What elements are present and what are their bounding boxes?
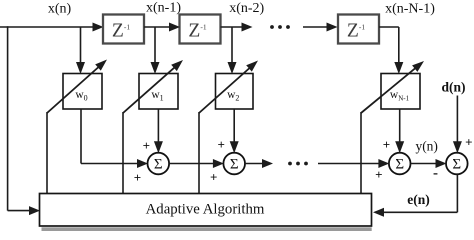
adjustment arrow through w1 (from adaptive algorithm) bbox=[123, 60, 183, 194]
delay block Z2 (Z^-1) bbox=[180, 15, 221, 44]
wire: tap x(n) down to w0 bbox=[76, 27, 85, 74]
label + (S4 plus input) bbox=[465, 134, 472, 149]
svg-text:Σ: Σ bbox=[154, 157, 163, 173]
label + (S1 left input) bbox=[134, 170, 141, 185]
svg-text:Adaptive Algorithm: Adaptive Algorithm bbox=[146, 202, 265, 218]
wire: into summer S3 bbox=[318, 159, 389, 168]
ellipsis: bottom row dots bbox=[288, 162, 308, 166]
summer S1 (sigma) bbox=[148, 153, 170, 175]
label + (S2 top input) bbox=[217, 137, 224, 152]
wire: summer S1 to summer S2 bbox=[169, 159, 224, 168]
svg-text:+: + bbox=[143, 138, 150, 153]
node: input branch vertical wire to adaptive algorithm bbox=[7, 26, 9, 210]
delay block Z3 (Z^-1) bbox=[338, 15, 379, 44]
summer S2 (sigma) bbox=[223, 153, 245, 175]
weight multiplier w1 bbox=[139, 74, 178, 110]
block: Adaptive Algorithm (with shadow) bbox=[40, 194, 372, 232]
wire: input x(n) horizontal line bbox=[0, 23, 104, 32]
svg-text:+: + bbox=[210, 170, 217, 185]
summer S3 (sigma) bbox=[389, 153, 411, 175]
svg-text:-: - bbox=[433, 166, 438, 182]
delay block Z1 (Z^-1) bbox=[103, 15, 144, 44]
wire: Z3 output to tap x(n-N-1) bbox=[379, 27, 403, 74]
wire: wN-1 output down to summer S3 bbox=[395, 109, 404, 153]
label y(n) bbox=[415, 138, 438, 153]
adjustment arrow through w2 (from adaptive algorithm) bbox=[199, 61, 258, 194]
summer S4 (sigma) bbox=[446, 153, 468, 175]
wire: Z1 output to Z2 bbox=[144, 23, 180, 32]
wire: Z2 output segment bbox=[221, 23, 253, 32]
svg-text:y(n): y(n) bbox=[415, 138, 438, 153]
label e(n) bbox=[407, 192, 430, 207]
wire: w1 output down to summer S1 bbox=[154, 109, 163, 153]
label x(n-N-1) bbox=[385, 2, 435, 17]
svg-text:+: + bbox=[465, 134, 472, 149]
svg-text:x(n-N-1): x(n-N-1) bbox=[385, 2, 435, 17]
label - (S4 minus input) bbox=[433, 166, 438, 182]
wire: w0 output to summer S1 bbox=[81, 109, 148, 168]
wire: y(n) from summer S3 to summer S4 bbox=[411, 159, 447, 168]
wire: tap x(n-2) down to w2 bbox=[228, 27, 237, 74]
svg-text:+: + bbox=[375, 167, 382, 182]
weight multiplier w0 bbox=[63, 74, 102, 110]
svg-text:x(n-1): x(n-1) bbox=[146, 1, 181, 16]
svg-text:Σ: Σ bbox=[395, 157, 404, 173]
svg-text:Σ: Σ bbox=[230, 157, 239, 173]
adjustment arrow through w0 (from adaptive algorithm) bbox=[47, 60, 107, 194]
ellipsis: top row dots bbox=[270, 25, 290, 29]
label + (S2 left input) bbox=[210, 170, 217, 185]
weight multiplier wN-1 bbox=[381, 74, 420, 110]
svg-text:x(n-2): x(n-2) bbox=[229, 1, 264, 16]
label + (S1 top input) bbox=[143, 138, 150, 153]
label x(n-1) bbox=[146, 1, 181, 16]
wire: e(n) from summer S4 to adaptive algorithm bbox=[373, 174, 457, 217]
svg-text:Σ: Σ bbox=[452, 157, 461, 173]
weight multiplier w2 bbox=[216, 74, 254, 110]
wire: w2 output down to summer S2 bbox=[230, 109, 239, 153]
svg-text:e(n): e(n) bbox=[407, 192, 430, 207]
label x(n) bbox=[48, 2, 72, 17]
label x(n-2) bbox=[229, 1, 264, 16]
wire: summer S2 output bbox=[245, 159, 273, 168]
svg-text:+: + bbox=[217, 137, 224, 152]
adjustment arrow through wN-1 (from adaptive algorithm) bbox=[361, 61, 424, 194]
label + (S3 left input) bbox=[375, 167, 382, 182]
svg-text:d(n): d(n) bbox=[441, 80, 465, 95]
svg-text:x(n): x(n) bbox=[48, 2, 72, 17]
label d(n) bbox=[441, 80, 465, 95]
wire: input into adaptive algorithm left bbox=[8, 206, 40, 215]
wire: d(n) down into summer S4 bbox=[453, 96, 462, 154]
svg-text:+: + bbox=[134, 170, 141, 185]
svg-text:+: + bbox=[383, 137, 390, 152]
label + (S3 top input) bbox=[383, 137, 390, 152]
wire: into Z3 bbox=[303, 23, 338, 32]
wire: tap x(n-1) down to w1 bbox=[151, 27, 160, 74]
